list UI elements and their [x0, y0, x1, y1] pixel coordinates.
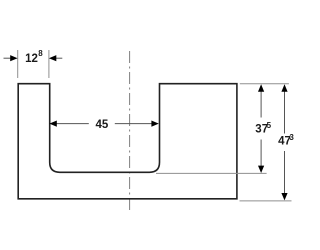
svg-text:8: 8: [38, 49, 43, 58]
svg-text:45: 45: [96, 119, 109, 131]
svg-text:5: 5: [267, 121, 272, 130]
svg-text:3: 3: [289, 133, 294, 142]
svg-text:12: 12: [25, 53, 38, 65]
